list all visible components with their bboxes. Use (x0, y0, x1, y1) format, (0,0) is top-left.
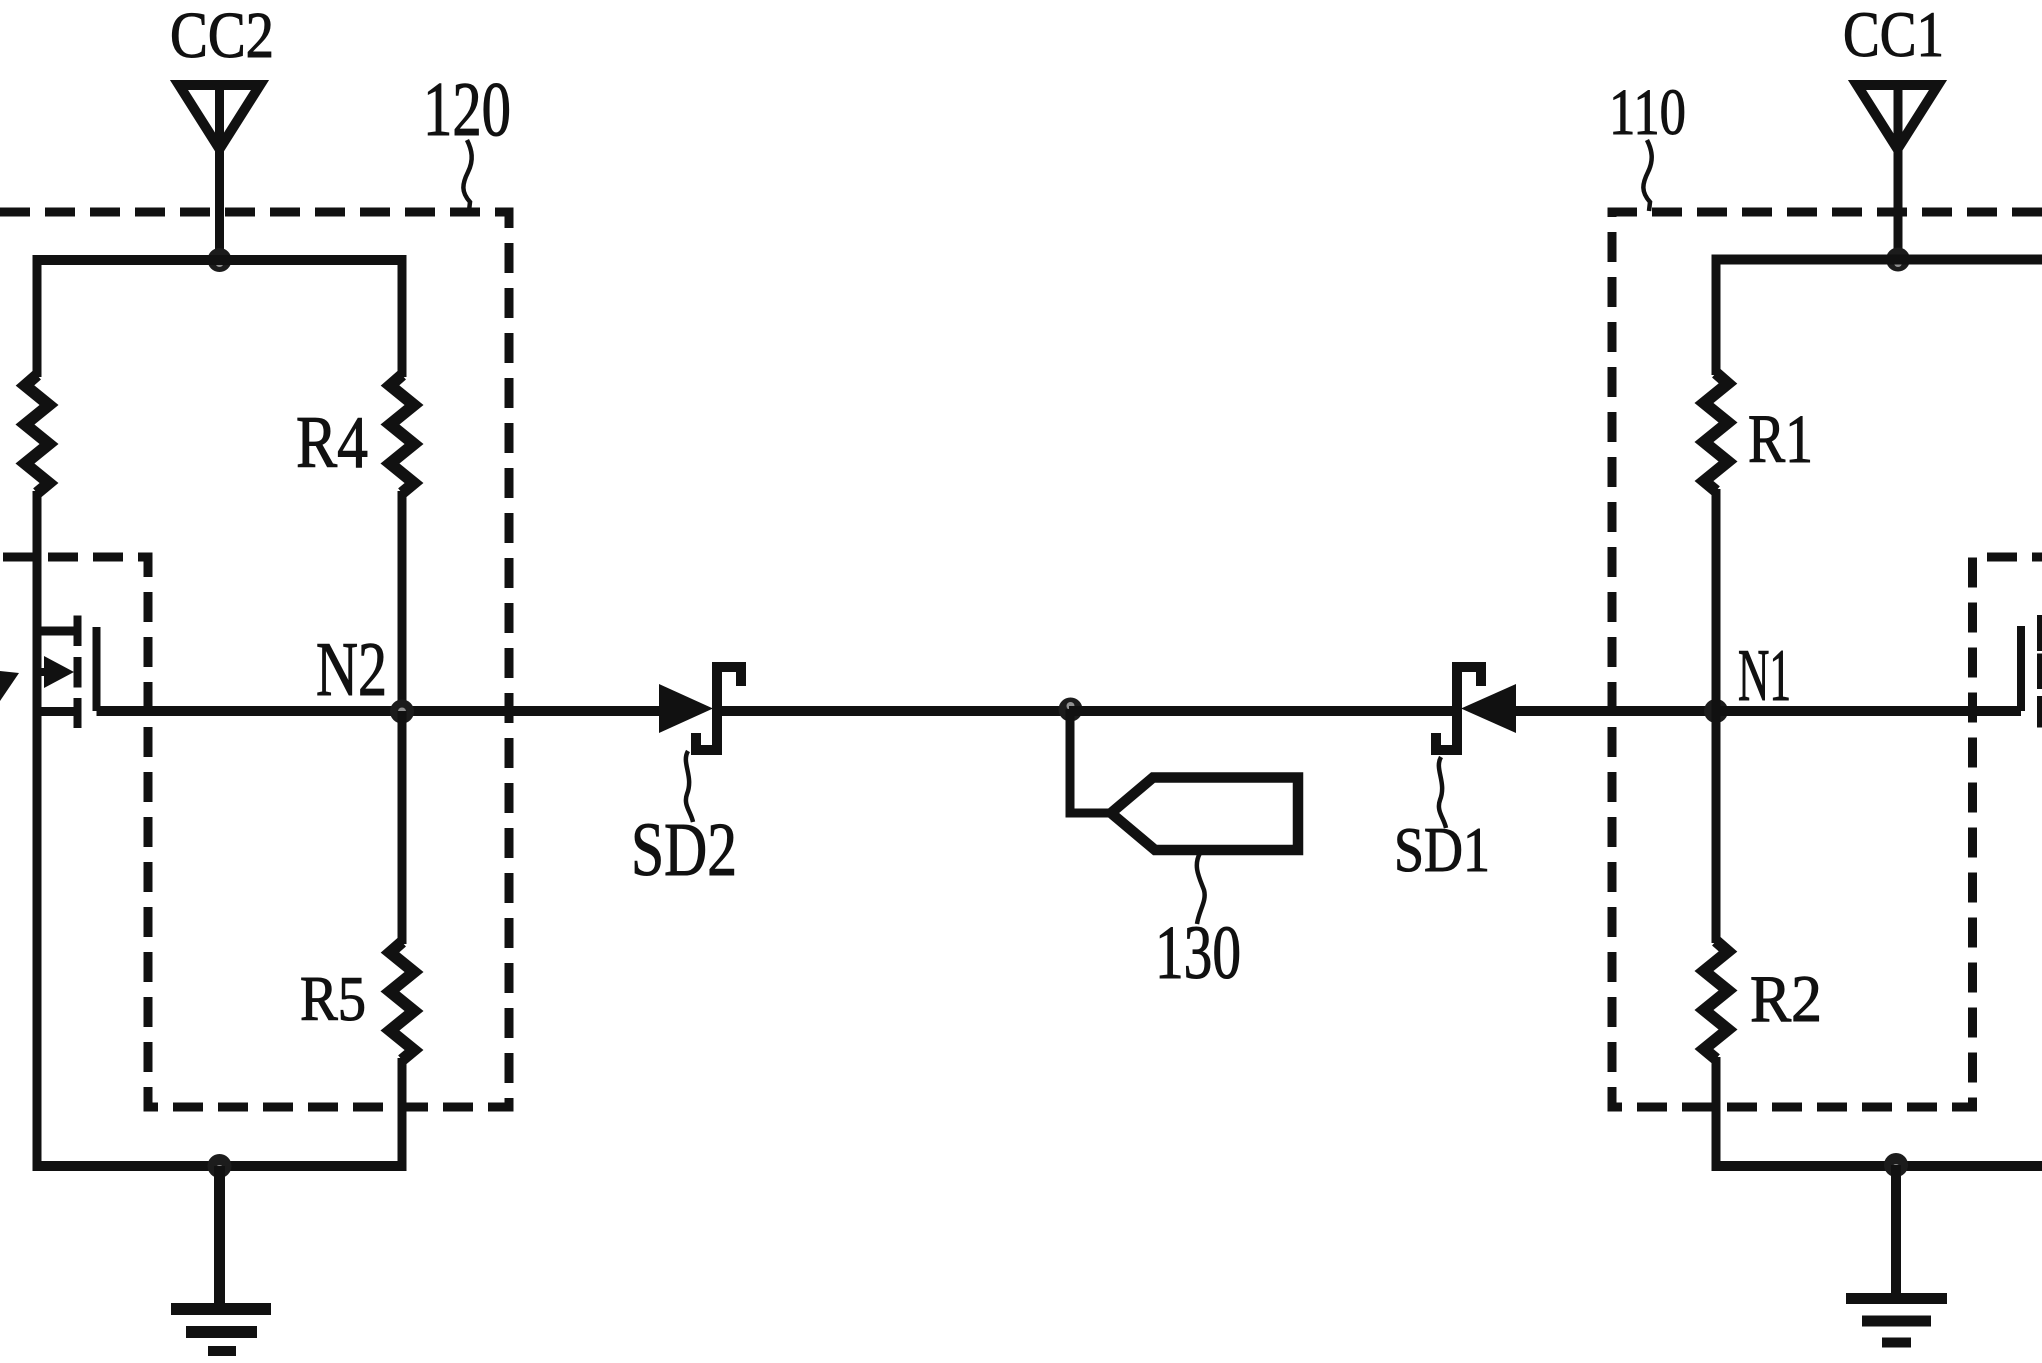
node N2 (390, 700, 414, 724)
resistor R3 (left, label cut off) (25, 375, 49, 493)
transistor M2 channel contacts (74, 616, 82, 729)
diode SD1 schottky cathode bar (1436, 667, 1481, 750)
transistor M2 gate bar (93, 627, 101, 711)
block 110 dashed boundary (1612, 212, 2042, 1107)
label SD2 (631, 808, 737, 892)
label R2 (1750, 962, 1822, 1036)
label N1 (1738, 635, 1791, 717)
resistor R5 (390, 942, 414, 1060)
node: antenna CC2 junction (208, 248, 232, 272)
wire: N1 to right gate (1716, 706, 2021, 716)
wire: R1 to node N1 (1712, 489, 1721, 713)
wire: ground stem right (1891, 1165, 1901, 1294)
leader squiggle for SD2 (686, 751, 693, 822)
transistor M1 channel contacts (cut off at right edge) (2037, 615, 2042, 728)
wire: center node to SD1 (1069, 706, 1452, 716)
diode SD2 anode triangle (659, 684, 713, 733)
wire: top rail right (1712, 255, 2042, 265)
wire: gate to node N2 (97, 706, 663, 716)
label CC1 (1843, 0, 1944, 71)
wire: bottom rail right (1712, 1161, 2042, 1171)
svg-text:N1: N1 (1738, 635, 1791, 717)
diode SD2 schottky cathode bar (696, 667, 741, 750)
wire: SD1 to node N1 (1514, 706, 1718, 716)
node: ground junction right (1884, 1153, 1908, 1177)
antenna CC2 (179, 85, 260, 259)
wire: R1 branch upper (1712, 255, 1721, 375)
arrow fragment at left edge (0, 671, 19, 701)
leader squiggle for 110 (1643, 140, 1651, 211)
transistor M1 gate bar (right edge) (2017, 626, 2025, 711)
wire: left branch lower (33, 491, 42, 1171)
label CC2 (170, 0, 274, 72)
label R1 (1748, 401, 1813, 477)
label R4 (296, 402, 368, 484)
block 120 dashed boundary (0, 212, 509, 1107)
ground symbol left (171, 1309, 271, 1351)
node: ground junction left (208, 1154, 232, 1178)
leader squiggle for 130 (1197, 853, 1205, 924)
wire: center node down to tag 130 (1070, 709, 1109, 813)
resistor R2 (1704, 941, 1728, 1059)
wire: ground stem left (214, 1166, 225, 1304)
wire: SD2 to center node (720, 706, 1072, 716)
node N1 (1704, 699, 1728, 723)
wire: bottom rail left (33, 1161, 407, 1171)
label 110 (1609, 76, 1686, 149)
connector tag 130 outline (1111, 778, 1298, 851)
leader squiggle for 120 (463, 140, 471, 211)
antenna CC1 (1857, 85, 1938, 259)
node: center junction (1059, 698, 1083, 722)
svg-text:CC1: CC1 (1843, 0, 1944, 71)
label 130 (1155, 911, 1241, 995)
label N2 (316, 626, 387, 712)
label SD1 (1394, 814, 1490, 885)
svg-text:R4: R4 (296, 402, 368, 484)
wire: R4 to node N2 (398, 491, 407, 715)
label 120 (423, 66, 511, 152)
svg-text:R2: R2 (1750, 962, 1822, 1036)
transistor M2 body arrow (33, 656, 74, 688)
wire: N1 to R2 (1712, 711, 1721, 943)
node: antenna CC1 junction (1886, 248, 1910, 272)
diode SD1 anode triangle (1461, 684, 1516, 733)
svg-text:SD1: SD1 (1394, 814, 1490, 885)
svg-text:110: 110 (1609, 76, 1686, 149)
svg-text:120: 120 (423, 66, 511, 152)
svg-text:R1: R1 (1748, 401, 1813, 477)
svg-text:R5: R5 (300, 964, 366, 1034)
transistor M2 drain wire (33, 627, 77, 636)
resistor R1 (1704, 373, 1728, 491)
wire: left branch upper (33, 255, 42, 377)
wire: top rail left (33, 255, 407, 265)
transistor M2 source wire (33, 707, 77, 716)
resistor R4 (390, 375, 414, 493)
wire: N2 to R5 (398, 711, 407, 944)
ground symbol right (1846, 1299, 1947, 1343)
wire: R4 branch upper (398, 255, 407, 377)
svg-text:CC2: CC2 (170, 0, 274, 72)
svg-text:N2: N2 (316, 626, 387, 712)
label R5 (300, 964, 366, 1034)
svg-text:SD2: SD2 (631, 808, 737, 892)
wire: R2 to bottom rail (1712, 1057, 1721, 1171)
svg-text:130: 130 (1155, 911, 1241, 995)
wire: R5 to bottom rail (398, 1058, 407, 1171)
leader squiggle for SD1 (1439, 757, 1446, 828)
